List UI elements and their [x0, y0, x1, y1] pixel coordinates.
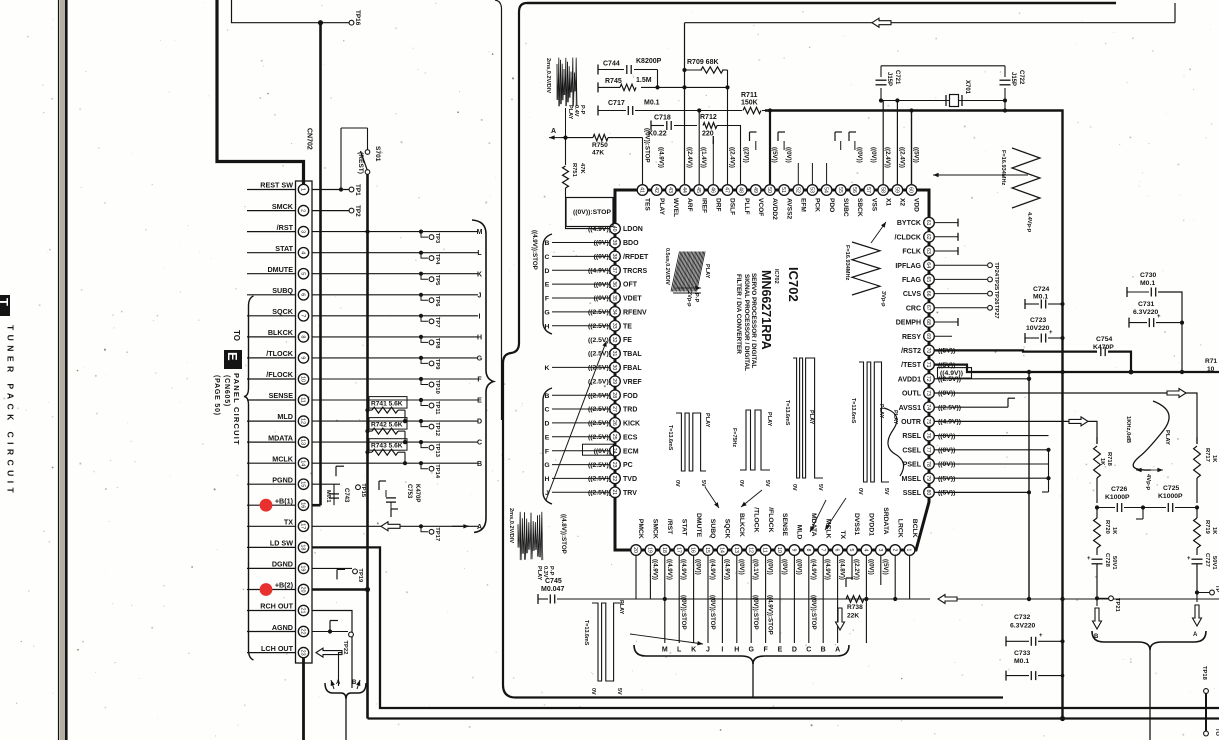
svg-text:+: +: [1187, 556, 1191, 562]
svg-text:47: 47: [724, 187, 730, 193]
svg-text:TP18: TP18: [1201, 666, 1207, 681]
CN702 pin 9 /TLOCK: [247, 357, 296, 359]
IC pin 10 SENSE: [775, 545, 786, 556]
svg-text:PMCK: PMCK: [637, 519, 644, 539]
svg-text:((2.2V)): ((2.2V)): [853, 559, 860, 580]
junction pin18 C745: [663, 597, 667, 601]
svg-text:F: F: [545, 296, 549, 303]
IC pin 67 CRC: [924, 303, 935, 314]
CN702 pin 16 +B(1): [247, 504, 296, 506]
IC pin 33 TE: [610, 321, 621, 332]
svg-text:SQCK: SQCK: [724, 519, 731, 539]
IC pin 77 CSEL: [924, 445, 935, 456]
svg-text:TP10: TP10: [434, 380, 440, 394]
svg-text:78: 78: [925, 461, 931, 467]
svg-text:TP3: TP3: [434, 233, 440, 244]
svg-text:61: 61: [925, 220, 931, 226]
capacitor C730 M0.1: [1126, 287, 1128, 297]
svg-text:T=13.6mS: T=13.6mS: [784, 400, 790, 426]
svg-text:1KHz,0dB: 1KHz,0dB: [1125, 416, 1131, 443]
svg-text:29: 29: [611, 378, 617, 384]
arrow out B: [1096, 598, 1098, 606]
svg-text:TVD: TVD: [623, 476, 637, 483]
brace output pair: [1092, 631, 1206, 650]
IC pin 27 TRD: [610, 404, 621, 415]
svg-text:R750: R750: [592, 142, 608, 149]
IC pin 19 SMCK: [645, 545, 656, 556]
svg-text:/TLOCK: /TLOCK: [266, 349, 294, 358]
svg-text:((0V)): ((0V)): [594, 254, 611, 261]
svg-text:PANEL CIRCUIT: PANEL CIRCUIT: [232, 373, 241, 446]
svg-text:/TEST: /TEST: [901, 362, 922, 369]
svg-text:DRF: DRF: [715, 198, 722, 212]
svg-text:LCH OUT: LCH OUT: [261, 644, 294, 653]
svg-text:SERVO PROCESSOR / DIGITAL: SERVO PROCESSOR / DIGITAL: [750, 273, 757, 368]
red highlight dot +B(1): [260, 499, 273, 512]
resistor R711 150K: [743, 107, 761, 113]
svg-text:57: 57: [865, 187, 871, 193]
IC pin 20 PMCK: [631, 545, 642, 556]
svg-text:1K: 1K: [1111, 527, 1117, 535]
IC pin 48 PLLF: [736, 185, 747, 196]
svg-text:M0.1: M0.1: [644, 100, 660, 107]
wire pin 78: [935, 463, 1049, 465]
resistor R750 47K: [593, 134, 608, 140]
svg-text:220: 220: [702, 131, 714, 138]
capacitor C721 J15P: [880, 66, 882, 77]
svg-text:((2.4V)): ((2.4V)): [884, 147, 891, 168]
svg-text:((0V)): ((0V)): [767, 559, 774, 575]
svg-text:18: 18: [300, 544, 306, 550]
IC pin 41 TES: [637, 185, 648, 196]
resistor R720 1K: [1096, 508, 1098, 519]
svg-text:+: +: [1039, 633, 1043, 639]
CN702 pin 10 /FLOCK: [247, 378, 296, 380]
waveform bottom square (T=13.6mS): [592, 603, 622, 681]
svg-text:DMUTE: DMUTE: [267, 265, 293, 274]
svg-text:AVSS2: AVSS2: [785, 198, 792, 219]
svg-text:B: B: [545, 393, 550, 400]
svg-text:50V1: 50V1: [1211, 556, 1217, 570]
svg-text:AVDD2: AVDD2: [771, 198, 778, 220]
svg-text:A: A: [835, 647, 840, 654]
svg-text:FE: FE: [623, 337, 632, 344]
svg-text:4: 4: [863, 549, 869, 552]
svg-text:MLD: MLD: [796, 525, 803, 540]
svg-text:B: B: [821, 647, 826, 654]
svg-text:53: 53: [809, 187, 815, 193]
svg-text:BLKCK: BLKCK: [268, 328, 294, 337]
IC pin 11 /FLOCK: [760, 545, 771, 556]
svg-text:SQCK: SQCK: [272, 307, 294, 316]
test point TP15: [356, 485, 361, 490]
resistor R738 22K: [846, 596, 864, 603]
svg-text:K: K: [477, 271, 482, 278]
svg-text:15: 15: [300, 481, 306, 487]
svg-text:((2.5V)): ((2.5V)): [938, 404, 961, 411]
svg-text:15: 15: [704, 547, 710, 553]
svg-text:2: 2: [300, 209, 306, 212]
svg-text:M0.1: M0.1: [1033, 294, 1048, 301]
svg-text:C722: C722: [1018, 70, 1024, 85]
svg-text:19: 19: [300, 565, 306, 571]
svg-text:FBAL: FBAL: [623, 365, 642, 372]
svg-text:10: 10: [1207, 366, 1215, 373]
wire pin45 riser: [698, 111, 700, 185]
capacitor C722 J15P: [1004, 66, 1006, 77]
svg-text:K470P: K470P: [1093, 344, 1114, 351]
svg-text:M: M: [477, 229, 483, 236]
svg-text:((0.1V)): ((0.1V)): [752, 559, 759, 580]
svg-text:((2.5V)): ((2.5V)): [588, 434, 611, 441]
svg-text:X701: X701: [964, 80, 970, 95]
svg-text:28: 28: [611, 392, 617, 398]
wire crystal top: [881, 65, 1005, 67]
svg-text:((5V)): ((5V)): [913, 147, 920, 163]
brace below CN702: [325, 683, 366, 699]
svg-text:26: 26: [611, 420, 617, 426]
IC pin 71 /TEST: [924, 359, 935, 370]
CN702 pin 21 RCH OUT: [247, 610, 296, 612]
svg-text:RFENV: RFENV: [623, 310, 647, 317]
svg-text:A: A: [336, 680, 341, 686]
svg-text:TO: TO: [232, 330, 241, 341]
test point TP24: [935, 264, 988, 266]
IC pin 49 VCOF: [751, 185, 762, 196]
svg-text:BYTCK: BYTCK: [897, 220, 921, 227]
svg-text:7: 7: [819, 549, 825, 552]
IC pin 59 X2: [892, 185, 903, 196]
svg-text:60: 60: [908, 187, 914, 193]
svg-text:((0V)): ((0V)): [781, 559, 788, 575]
svg-text:L: L: [677, 647, 682, 654]
svg-text:8: 8: [300, 335, 306, 338]
wire pin 79: [935, 477, 1049, 479]
bracket bundle 1: [543, 234, 552, 334]
capacitor C744 K8200P: [597, 65, 599, 75]
wire IC pin 19 drop: [649, 556, 651, 600]
wire IC pin 11 drop: [765, 556, 767, 644]
IC pin 8 MDATA: [804, 545, 815, 556]
svg-text:K: K: [545, 365, 550, 372]
CN702 pin 12 MLD: [247, 420, 296, 422]
test point TP17 branch: [419, 524, 423, 528]
svg-text:J: J: [706, 647, 710, 654]
svg-text:75: 75: [925, 419, 931, 425]
wire rail x368: [366, 174, 369, 718]
wire CN702 row 3: [312, 231, 478, 233]
svg-text:9: 9: [791, 549, 797, 552]
svg-text:R712: R712: [700, 114, 717, 121]
wire AVSS1: [935, 406, 1009, 408]
svg-text:PLAY: PLAY: [808, 410, 814, 425]
svg-text:TP6: TP6: [434, 296, 440, 307]
svg-text:IPFLAG: IPFLAG: [895, 263, 921, 270]
svg-text:((4.9V)): ((4.9V)): [709, 559, 716, 580]
svg-text:DSLF: DSLF: [729, 198, 736, 215]
svg-text:DVDD1: DVDD1: [868, 513, 875, 536]
wire IC pin 5 drop: [851, 556, 853, 581]
svg-text:59: 59: [894, 187, 900, 193]
svg-text:51: 51: [780, 187, 786, 193]
svg-text:C754: C754: [1096, 336, 1112, 343]
CN702 pin 2 SMCK: [247, 210, 296, 212]
svg-text:LRCK: LRCK: [896, 519, 903, 538]
CN702 pin 19 DGND: [247, 567, 296, 569]
svg-text:TP4: TP4: [434, 254, 440, 265]
IC pin 35 VDET: [610, 293, 621, 304]
IC pin 43 WVEL: [666, 185, 677, 196]
wire AVDD1: [935, 378, 1030, 380]
svg-text:E: E: [225, 352, 240, 361]
svg-text:M0.1: M0.1: [1014, 658, 1029, 665]
junction C730 rail: [1180, 370, 1184, 374]
capacitor C718 K0.22: [650, 121, 652, 131]
svg-text:TP1: TP1: [354, 184, 361, 196]
wire TX row: [312, 525, 478, 527]
svg-text:MN66271RPA: MN66271RPA: [759, 270, 773, 350]
arrow top loop: [872, 18, 891, 27]
svg-text:TP7: TP7: [434, 317, 440, 328]
svg-text:P-P: P-P: [579, 105, 585, 115]
svg-text:21: 21: [300, 608, 306, 614]
svg-text:TP22: TP22: [342, 641, 348, 655]
CN702 pin 18 LD SW: [247, 546, 296, 548]
svg-text:((2.5V)): ((2.5V)): [588, 365, 611, 372]
arrow R738 down: [836, 608, 845, 630]
svg-text:((2.4V)): ((2.4V)): [729, 147, 736, 168]
svg-text:PLAY: PLAY: [658, 198, 665, 216]
svg-text:C730: C730: [1140, 272, 1156, 279]
svg-text:0.4V: 0.4V: [573, 105, 579, 117]
wire IC pin 3 drop: [880, 556, 882, 586]
svg-text:10: 10: [300, 376, 306, 382]
svg-text:23: 23: [611, 462, 617, 468]
svg-text:((4.9V)): ((4.9V)): [680, 559, 687, 580]
svg-text:54: 54: [823, 187, 829, 193]
IC pin 14 SQCK: [717, 545, 728, 556]
wire pin 80 SSEL: [935, 491, 1030, 493]
svg-text:E: E: [778, 647, 783, 654]
crystal X701: [945, 95, 947, 106]
wire pin62 stub: [935, 236, 959, 238]
IC pin 15 SUBQ: [703, 545, 714, 556]
svg-text:BDO: BDO: [623, 240, 639, 247]
wire crystal line: [881, 100, 1005, 102]
svg-text:((4.9V)): ((4.9V)): [824, 559, 831, 580]
svg-text:((2.5V)): ((2.5V)): [588, 420, 611, 427]
wire thick feed to CN702 pin1: [217, 0, 304, 185]
svg-text:K0.22: K0.22: [648, 131, 667, 138]
svg-text:74: 74: [925, 404, 931, 410]
waveform SQCK (F=75Hz): [740, 410, 770, 470]
test point TP11 branch: [419, 398, 423, 402]
svg-text:3: 3: [877, 549, 883, 552]
test point TP8 branch: [419, 335, 423, 339]
svg-text:TP12: TP12: [434, 422, 440, 436]
svg-text:TP25: TP25: [993, 276, 999, 291]
waveform audio sine (1KHz 0dB): [1133, 401, 1169, 470]
svg-text:C745: C745: [545, 578, 562, 585]
svg-text:((2V)): ((2V)): [743, 147, 750, 163]
svg-text:((0V)):STOP: ((0V)):STOP: [573, 209, 611, 216]
svg-text:0V: 0V: [738, 480, 744, 487]
page divider band (left): [58, 0, 60, 740]
svg-text:C732: C732: [1014, 614, 1030, 621]
node marker A (out): [331, 680, 334, 689]
wire REST SW to TP1: [312, 189, 349, 191]
svg-text:62: 62: [925, 234, 931, 240]
IC pin 70 /RST2: [924, 345, 935, 356]
IC pin 39 BDO: [610, 237, 621, 248]
junction pin4 C745: [864, 597, 868, 601]
svg-text:23: 23: [300, 650, 306, 656]
svg-text:42: 42: [653, 187, 659, 193]
svg-text:G: G: [748, 647, 754, 654]
IC pin 24 ECM: [610, 445, 621, 456]
svg-text:K8200P: K8200P: [636, 58, 662, 65]
svg-text:((4.8V)):STOP: ((4.8V)):STOP: [560, 514, 567, 554]
svg-text:TO: TO: [1214, 728, 1219, 736]
svg-text:D: D: [545, 421, 550, 428]
svg-text:((0V)):STOP: ((0V)):STOP: [680, 595, 687, 630]
wire pin 76: [935, 435, 1049, 437]
svg-text:EFM: EFM: [800, 198, 807, 212]
IC pin 32 FE: [610, 334, 621, 345]
svg-text:65: 65: [925, 277, 931, 283]
svg-text:69: 69: [925, 333, 931, 339]
capacitor C731 6.3V220: [1128, 318, 1130, 328]
test point TP21: [1095, 596, 1099, 600]
svg-text:(PAGE 50): (PAGE 50): [213, 375, 220, 416]
capacitor C725 K1000P: [1143, 507, 1166, 509]
arrow waveform to MDATA: [810, 500, 826, 532]
wire CN702 row 4: [312, 252, 478, 254]
ground stub DVSS1: [845, 578, 847, 587]
IC pin 57 VSS: [864, 185, 875, 196]
IC pin 29 VREF: [610, 376, 621, 387]
IC pin 58 X1: [878, 185, 889, 196]
svg-text:38: 38: [611, 254, 617, 260]
svg-text:50: 50: [766, 187, 772, 193]
svg-text:0V: 0V: [791, 484, 797, 491]
svg-text:PLAY: PLAY: [618, 600, 624, 615]
svg-text:C717: C717: [608, 100, 625, 107]
svg-text:5V: 5V: [616, 688, 622, 695]
svg-text:PLAY: PLAY: [766, 412, 772, 427]
arrow TX line end: [452, 525, 469, 527]
IC pin 69 RESY: [924, 331, 935, 342]
svg-text:C727: C727: [1204, 553, 1210, 567]
IC pin 45 IREF: [694, 185, 705, 196]
wire IC pin 1 drop: [909, 556, 911, 600]
svg-text:TP8: TP8: [434, 338, 440, 349]
svg-text:TX: TX: [284, 518, 293, 527]
svg-text:TP26: TP26: [993, 291, 999, 306]
svg-text:TP27: TP27: [993, 305, 999, 319]
arrow C745 line: [938, 595, 957, 604]
svg-text:((0V)): ((0V)): [594, 295, 611, 302]
svg-text:OFT: OFT: [623, 282, 638, 289]
svg-text:((5V)): ((5V)): [882, 559, 889, 575]
svg-text:C753: C753: [406, 484, 412, 499]
svg-text:+: +: [1049, 330, 1053, 336]
svg-text:AVSS1: AVSS1: [899, 405, 922, 412]
svg-text:VDD: VDD: [913, 198, 920, 212]
svg-text:STAT: STAT: [275, 244, 293, 253]
junction C754 test: [1129, 370, 1134, 375]
brace below IC: [634, 645, 849, 664]
svg-text:TP9: TP9: [434, 359, 440, 370]
svg-text:34: 34: [611, 309, 617, 315]
svg-text:+B(2): +B(2): [275, 581, 294, 590]
svg-text:J: J: [478, 292, 482, 299]
test point TP20: [1195, 590, 1199, 594]
svg-text:S701: S701: [374, 146, 381, 162]
svg-text:SUBC: SUBC: [842, 198, 849, 217]
svg-text:22: 22: [611, 476, 617, 482]
wire pin69 stub: [935, 335, 953, 337]
test point TP13 branch: [419, 440, 423, 444]
svg-text:G: G: [477, 356, 483, 363]
svg-text:((2.5V)): ((2.5V)): [588, 476, 611, 483]
test point TP22: [349, 632, 354, 637]
IC pin 75 OUTR: [924, 416, 935, 427]
wire pin68 stub: [935, 321, 959, 323]
svg-text:((4.9V)): ((4.9V)): [651, 559, 658, 580]
svg-text:1: 1: [906, 549, 912, 552]
resistor R742 5.6K: [365, 429, 369, 433]
svg-text:E: E: [545, 434, 550, 441]
IC pin 46 DRF: [708, 185, 719, 196]
svg-text:66: 66: [925, 291, 931, 297]
svg-text:0.3V: 0.3V: [542, 566, 548, 578]
svg-text:25: 25: [611, 434, 617, 440]
svg-text:VCOF: VCOF: [757, 198, 764, 216]
IC pin 36 OFT: [610, 279, 621, 290]
svg-text:PLLF: PLLF: [743, 198, 750, 214]
connector CN702 body: [296, 181, 313, 663]
svg-text:47K: 47K: [579, 163, 585, 174]
wire diagonal to FE: [546, 341, 607, 500]
IC pin 22 TVD: [610, 473, 621, 484]
waveform SUBQ (T=13.6mS): [676, 413, 706, 471]
svg-text:24: 24: [611, 448, 617, 454]
svg-text:BCLK: BCLK: [911, 519, 918, 538]
CN702 pin 3 /RST: [247, 231, 296, 233]
svg-text:10: 10: [776, 547, 782, 553]
svg-text:71: 71: [925, 362, 931, 368]
svg-text:TP21: TP21: [1114, 598, 1120, 613]
resistor R717 1K: [1196, 437, 1198, 444]
IC pin 16 DMUTE: [688, 545, 699, 556]
svg-text:9: 9: [300, 356, 306, 359]
svg-text:C: C: [545, 407, 550, 414]
svg-text:T: T: [0, 298, 11, 306]
IC pin 52 EFM: [793, 185, 804, 196]
svg-text:TX: TX: [839, 530, 846, 539]
svg-text:CN702: CN702: [306, 128, 313, 150]
IC pin 73 OUTL: [924, 388, 935, 399]
switch S701: [340, 128, 342, 190]
IC pin 79 MSEL: [924, 473, 935, 484]
svg-text:47K: 47K: [592, 150, 604, 157]
IC pin 9 MLD: [789, 545, 800, 556]
svg-text:((0V)): ((0V)): [695, 559, 702, 575]
wire C745 line: [537, 594, 539, 604]
test point TP12 branch: [419, 419, 423, 423]
svg-text:((2.5V)): ((2.5V)): [588, 309, 611, 316]
